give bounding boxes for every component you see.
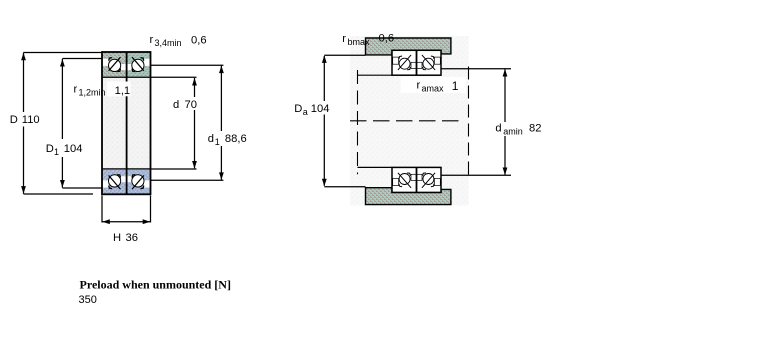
svg-text:82: 82: [529, 123, 541, 135]
svg-text:d: d: [495, 123, 501, 135]
dimension d1 88,6: [220, 66, 222, 132]
svg-text:amin: amin: [503, 127, 523, 137]
shaft seat lines: [358, 74, 393, 76]
left figure: bearing cross-section, upper half: [102, 52, 127, 77]
svg-text:D: D: [46, 143, 54, 155]
dimension Da 104: [323, 56, 325, 101]
axis centerline (dashed): [350, 120, 463, 122]
hidden shaft edge (left, dashed): [357, 70, 359, 174]
svg-text:1: 1: [54, 147, 59, 157]
svg-text:104: 104: [311, 103, 330, 115]
dimension H 36: [101, 196, 103, 223]
svg-text:0,6: 0,6: [191, 35, 207, 47]
svg-text:104: 104: [64, 143, 83, 155]
svg-text:bmax: bmax: [348, 37, 371, 47]
svg-text:110: 110: [22, 114, 40, 126]
svg-text:3,4min: 3,4min: [155, 38, 182, 48]
shaft block (bottom, blue): [366, 188, 451, 205]
label ramax 1: [401, 77, 466, 93]
right figure: pale hatched background: [350, 36, 469, 206]
dimension damin 82: [504, 69, 506, 122]
right figure: bearing lower section: [392, 167, 417, 192]
svg-text:1: 1: [215, 137, 220, 147]
dimension D 110: [23, 53, 25, 113]
svg-text:r: r: [150, 34, 154, 46]
svg-text:a: a: [303, 107, 308, 117]
svg-text:amax: amax: [422, 84, 445, 94]
svg-text:d: d: [208, 133, 214, 145]
svg-text:88,6: 88,6: [225, 133, 247, 145]
svg-text:r: r: [342, 33, 346, 45]
svg-text:1: 1: [452, 79, 459, 93]
svg-text:d: d: [173, 99, 179, 111]
svg-text:r: r: [417, 80, 421, 92]
svg-text:H: H: [113, 232, 121, 244]
svg-text:D: D: [10, 114, 18, 126]
svg-text:350: 350: [79, 294, 97, 306]
svg-text:r: r: [74, 84, 78, 96]
housing block (top, blue): [366, 38, 451, 55]
svg-text:0,6: 0,6: [379, 33, 395, 45]
svg-text:70: 70: [185, 99, 197, 111]
right figure: bearing upper section: [392, 50, 417, 75]
svg-text:1,2min: 1,2min: [79, 88, 106, 98]
left figure: outline: [102, 52, 151, 194]
svg-text:36: 36: [126, 232, 138, 244]
svg-text:Preload when unmounted [N]: Preload when unmounted [N]: [80, 278, 231, 292]
svg-text:1,1: 1,1: [115, 85, 131, 97]
hidden shaft edge (right, dashed): [468, 67, 470, 177]
left figure: middle bore region (hatched): [102, 77, 151, 169]
left figure: bearing cross-section, lower half: [102, 169, 127, 194]
dimension d 70: [194, 78, 196, 97]
dimension D1 104: [61, 59, 63, 139]
svg-text:D: D: [294, 103, 302, 115]
